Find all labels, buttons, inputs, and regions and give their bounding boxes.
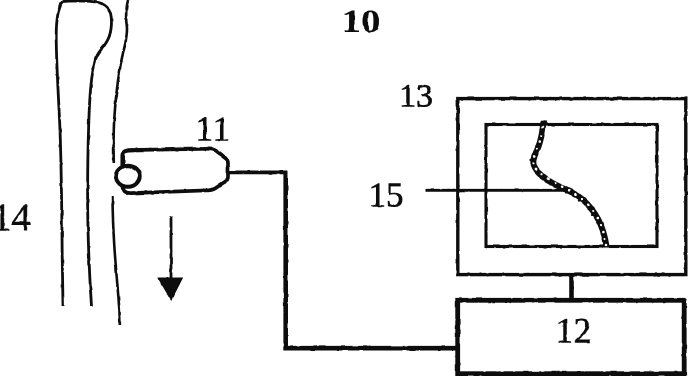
svg-text:10: 10 (342, 4, 381, 40)
svg-text:1: 1 (196, 110, 214, 149)
svg-text:14: 14 (0, 196, 31, 239)
svg-text:13: 13 (399, 79, 433, 115)
svg-text:12: 12 (556, 311, 592, 351)
svg-text:15: 15 (369, 176, 404, 215)
svg-text:1: 1 (213, 110, 231, 149)
